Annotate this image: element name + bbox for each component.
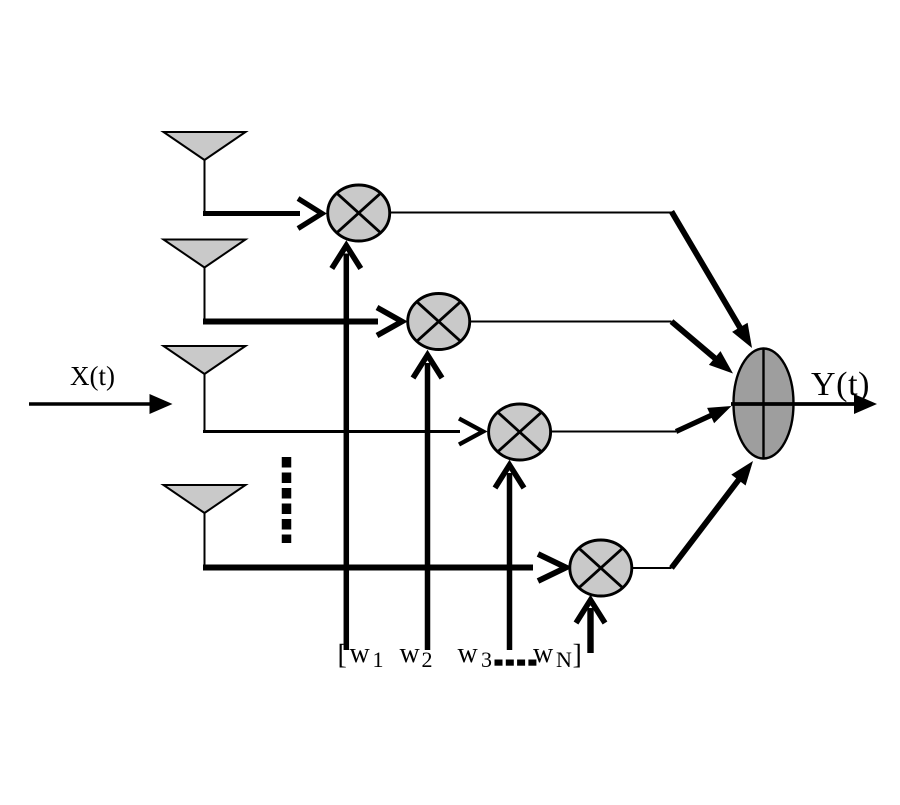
svg-text:X(t): X(t) [70,361,115,391]
svg-text:3: 3 [481,647,492,672]
svg-text:N: N [556,647,572,672]
svg-text:Y(t): Y(t) [811,366,870,403]
svg-text:w: w [458,638,479,669]
svg-text:2: 2 [422,647,433,672]
svg-text:1: 1 [373,647,384,672]
svg-text:w: w [400,638,421,669]
svg-text:w: w [350,638,371,669]
svg-text:]: ] [573,640,582,671]
svg-text:[: [ [338,640,347,671]
